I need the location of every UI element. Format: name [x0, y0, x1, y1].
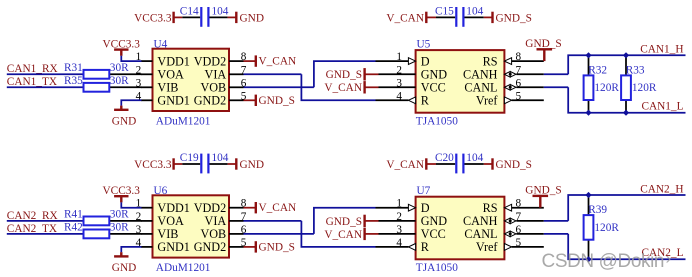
svg-text:VIA: VIA [205, 68, 227, 82]
junction on CAN1_L at R32 [585, 110, 591, 116]
U5 pin 2 lead [379, 73, 416, 75]
power V_CAN at U4 pin 8 [244, 60, 256, 62]
wire U4 pin 4 to GND [121, 100, 141, 105]
svg-text:VDD2: VDD2 [194, 201, 227, 215]
svg-text:R: R [421, 94, 430, 108]
svg-text:R: R [421, 240, 430, 254]
svg-text:U7: U7 [417, 185, 431, 197]
U5 pin 5 Vref stub with output arrow [504, 97, 511, 104]
U6 left pin leads [141, 207, 153, 209]
wire CAN1_RX [7, 73, 84, 75]
wire U5 CANL to CAN1_L rail [544, 86, 568, 88]
svg-text:120R: 120R [632, 82, 657, 94]
svg-text:VOB: VOB [200, 81, 226, 95]
svg-text:VIB: VIB [157, 81, 178, 95]
U4 left pin leads [141, 60, 153, 62]
svg-text:C15: C15 [435, 6, 454, 18]
ground GND at U6 pin 4 [120, 252, 122, 256]
svg-text:30R: 30R [110, 221, 129, 233]
svg-text:CAN2_RX: CAN2_RX [7, 210, 58, 222]
resistor R35 30R [109, 86, 142, 88]
svg-text:C14: C14 [180, 6, 199, 18]
svg-text:GND_S: GND_S [326, 69, 362, 81]
capacitor C14 104 [182, 16, 200, 18]
svg-text:RS: RS [483, 54, 498, 68]
svg-text:GND: GND [421, 214, 448, 228]
junction on CAN1_H at R32 [585, 52, 591, 58]
svg-text:GND: GND [112, 115, 136, 127]
svg-text:VCC3.3: VCC3.3 [134, 13, 172, 25]
svg-text:U5: U5 [417, 39, 431, 51]
svg-text:CAN1_RX: CAN1_RX [7, 63, 58, 75]
svg-text:CSDN @Dokin: CSDN @Dokin [542, 251, 665, 272]
svg-text:104: 104 [212, 152, 229, 164]
svg-text:D: D [421, 201, 430, 215]
U7 pin 4 lead with output arrow [376, 246, 409, 248]
junction on CAN1_H at R33 [623, 52, 629, 58]
wire CAN2_TX [7, 233, 84, 235]
U7 pin 6 lead with bidir arrow [504, 231, 516, 237]
ground GND_S (cap C15) [484, 16, 493, 18]
junction on CAN2_L at R39 [585, 256, 591, 262]
ground GND at U4 pin 4 [120, 106, 122, 110]
resistor R41 30R [109, 220, 142, 222]
svg-text:VCC3.3: VCC3.3 [134, 159, 172, 171]
junction on CAN2_H at R39 [585, 192, 591, 198]
svg-text:U6: U6 [154, 185, 168, 197]
svg-text:GND2: GND2 [194, 240, 227, 254]
wire VOB to transceiver D [244, 86, 314, 88]
svg-text:30R: 30R [110, 62, 129, 74]
svg-text:VIA: VIA [205, 214, 227, 228]
svg-text:V_CAN: V_CAN [259, 55, 297, 67]
wire VOB to transceiver D [244, 233, 314, 235]
wire CAN2_RX [7, 220, 84, 222]
svg-text:104: 104 [212, 6, 229, 18]
U7 pin 2 lead [379, 220, 416, 222]
svg-text:120R: 120R [594, 82, 619, 94]
svg-text:C20: C20 [435, 152, 454, 164]
U7 pin 1 lead with input arrow [376, 207, 409, 209]
U5 pin 1 lead with input arrow [376, 60, 409, 62]
svg-text:R41: R41 [64, 208, 83, 220]
svg-text:Vref: Vref [476, 94, 499, 108]
svg-text:120R: 120R [594, 222, 619, 234]
svg-text:CAN2_H: CAN2_H [640, 183, 683, 195]
svg-text:VOA: VOA [157, 68, 184, 82]
svg-text:CANL: CANL [464, 81, 497, 95]
svg-text:VOB: VOB [200, 227, 226, 241]
svg-text:GND_S: GND_S [326, 216, 362, 228]
svg-text:GND: GND [240, 159, 264, 171]
svg-text:RS: RS [483, 201, 498, 215]
svg-text:VIB: VIB [157, 227, 178, 241]
svg-text:R42: R42 [64, 221, 83, 233]
U5 pin 6 lead with bidir arrow [504, 85, 516, 91]
ground GND (cap C19) [228, 163, 237, 165]
ground GND_S (cap C20) [484, 163, 493, 165]
svg-text:ADuM1201: ADuM1201 [156, 115, 211, 127]
resistor R42 30R [109, 233, 142, 235]
svg-text:GND: GND [421, 68, 448, 82]
wire U7 CANL to CAN2_L rail [544, 233, 568, 235]
wire VCC3.3 to pin 1 [121, 56, 141, 61]
wire VIA to transceiver R [244, 73, 302, 75]
svg-text:R35: R35 [64, 75, 83, 87]
svg-text:V_CAN: V_CAN [386, 13, 424, 25]
wire U6 pin 4 to GND [121, 247, 141, 252]
svg-text:GND1: GND1 [157, 240, 190, 254]
U5 pin 3 lead [379, 86, 416, 88]
svg-text:30R: 30R [110, 75, 129, 87]
U7 pin 5 Vref stub with output arrow [504, 244, 511, 251]
svg-text:›: › [666, 249, 672, 268]
U7 pin 3 lead [379, 233, 416, 235]
ground GND_S at U4 pin 5 [244, 99, 256, 101]
svg-text:V_CAN: V_CAN [259, 202, 297, 214]
U5 pin 4 lead with output arrow [376, 99, 409, 101]
svg-text:GND1: GND1 [157, 94, 190, 108]
svg-text:30R: 30R [110, 208, 129, 220]
svg-text:U4: U4 [154, 39, 168, 51]
resistor R32 120R [588, 55, 590, 75]
wire U5 CANH to CAN1_H rail [544, 73, 568, 75]
svg-text:CAN1_H: CAN1_H [640, 44, 683, 56]
svg-text:CAN1_L: CAN1_L [641, 101, 683, 113]
ground GND_S at U6 pin 5 [244, 246, 256, 248]
svg-text:GND_S: GND_S [496, 13, 532, 25]
wire U7 CANH to CAN2_H rail [544, 220, 568, 222]
svg-text:V_CAN: V_CAN [386, 159, 424, 171]
svg-text:VCC: VCC [421, 227, 446, 241]
wire VCC3.3 to pin 1 [121, 202, 141, 207]
U7 pin 7 lead with bidir arrow [504, 218, 516, 224]
svg-text:CANH: CANH [463, 214, 498, 228]
svg-text:GND_S: GND_S [496, 159, 532, 171]
svg-text:CAN2_TX: CAN2_TX [7, 223, 57, 235]
svg-text:D: D [421, 54, 430, 68]
svg-text:GND: GND [112, 262, 136, 274]
U7 pin 8 lead with input arrow [504, 204, 511, 211]
transceiver U7 TJA1050 body [416, 197, 505, 260]
svg-text:C19: C19 [180, 152, 199, 164]
svg-text:CANH: CANH [463, 68, 498, 82]
capacitor C15 104 [436, 16, 455, 18]
svg-text:V_CAN: V_CAN [324, 82, 362, 94]
capacitor C19 104 [182, 163, 200, 165]
resistor R31 30R [109, 73, 142, 75]
svg-text:TJA1050: TJA1050 [416, 115, 458, 127]
svg-text:GND: GND [240, 13, 264, 25]
U5 pin 7 lead with bidir arrow [504, 72, 516, 78]
svg-text:VCC: VCC [421, 81, 446, 95]
wire CAN1_TX [7, 86, 84, 88]
transceiver U5 TJA1050 body [416, 50, 505, 113]
svg-text:GND_S: GND_S [259, 241, 295, 253]
capacitor C20 104 [436, 163, 455, 165]
junction on CAN1_L at R33 [623, 110, 629, 116]
svg-text:TJA1050: TJA1050 [416, 262, 458, 274]
svg-text:VDD2: VDD2 [194, 54, 227, 68]
U6 right pin leads [229, 207, 244, 209]
power V_CAN at U6 pin 8 [244, 207, 256, 209]
svg-text:Vref: Vref [476, 240, 499, 254]
svg-text:V_CAN: V_CAN [324, 229, 362, 241]
resistor R39 120R [588, 195, 590, 215]
svg-text:ADuM1201: ADuM1201 [156, 262, 211, 274]
svg-text:VDD1: VDD1 [157, 54, 190, 68]
isolator U6 ADuM1201 body [153, 195, 230, 257]
svg-text:VDD1: VDD1 [157, 201, 190, 215]
svg-text:104: 104 [466, 6, 483, 18]
svg-text:VOA: VOA [157, 214, 184, 228]
U5 pin 8 lead with input arrow [504, 58, 511, 65]
svg-text:R33: R33 [626, 64, 645, 76]
U4 right pin leads [229, 60, 244, 62]
svg-text:CANL: CANL [464, 227, 497, 241]
ground GND (cap C14) [228, 16, 237, 18]
svg-text:GND_S: GND_S [259, 95, 295, 107]
resistor R33 120R [625, 55, 627, 75]
isolator U4 ADuM1201 body [153, 49, 230, 111]
svg-text:R39: R39 [588, 204, 607, 216]
wire VIA to transceiver R [244, 220, 302, 222]
svg-text:GND2: GND2 [194, 94, 227, 108]
svg-text:R32: R32 [588, 64, 607, 76]
svg-text:104: 104 [466, 152, 483, 164]
svg-text:R31: R31 [64, 62, 83, 74]
svg-text:CAN1_TX: CAN1_TX [7, 76, 57, 88]
